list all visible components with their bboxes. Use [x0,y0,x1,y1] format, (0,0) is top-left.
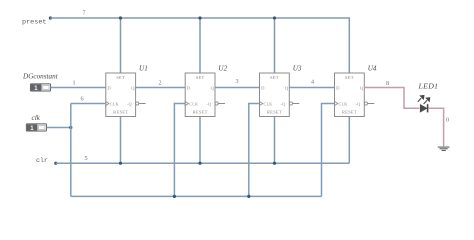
wire : preset drop to U3 SET [274,18,276,73]
ground [438,147,450,150]
junction clr/U3 [273,162,276,165]
svg-text:8: 8 [386,80,389,87]
svg-text:LED1: LED1 [418,82,439,91]
svg-text:3: 3 [235,78,238,85]
svg-text:6: 6 [80,96,83,103]
wire net 6 : riser to U3 CLK [249,104,260,197]
junction preset/U1 [119,16,122,19]
svg-text:U4: U4 [368,65,377,73]
svg-text:clk: clk [32,114,41,122]
flip-flop U4 [335,73,375,117]
svg-text:U3: U3 [293,65,302,73]
wire net 5 : clr bus [56,162,350,164]
junction clock bus / U2 [173,195,176,198]
junction clk [69,126,72,129]
svg-text:preset: preset [22,18,46,26]
svg-text:U1: U1 [139,65,148,73]
LED LED1 [418,82,439,113]
junction preset/U2 [198,16,201,19]
wire : preset drop to U1 SET [120,18,122,73]
svg-text:0: 0 [446,116,449,123]
wire net 7 : preset bus [50,18,349,73]
junction clr/U2 [198,162,201,165]
wire net 5 : U2 RESET drop [199,117,201,164]
wire net 5 : U1 RESET drop [120,117,122,164]
wire net 0 : LED1 cathode to ground [428,108,443,146]
wire net 6 : riser to U4 CLK [322,104,335,197]
junction clock bus / U3 [247,195,250,198]
wire net 6 : clk vertical riser [70,104,72,197]
wire net 5 : U4 RESET drop [348,117,350,164]
wire net 6 : riser to U2 CLK [174,104,185,197]
clock source clk [26,114,46,132]
wire net 1 : DGconstant to U1 D [51,87,106,89]
flip-flop U3 [260,73,300,117]
wire net 4 : U3 Q to U4 D [289,87,334,89]
wire net 6 : clk to junction [47,127,71,129]
svg-text:5: 5 [84,155,87,162]
flip-flop U2 [185,73,225,117]
svg-text:1: 1 [72,80,75,87]
svg-text:clr: clr [36,157,48,164]
junction preset/U3 [273,16,276,19]
svg-text:2: 2 [158,80,161,87]
junction clr/U1 [119,162,122,165]
wire net 6 : to U1 CLK [71,103,106,105]
flip-flop U1 [106,73,146,117]
wire net 6 : bottom clock bus [71,195,322,197]
svg-text:4: 4 [311,79,314,86]
wire net 8 : U4 Q to LED1 [364,88,419,109]
wire : preset drop to U2 SET [199,18,201,73]
wire net 3 : U2 Q to U3 D [215,87,260,89]
wire net 5 : U3 RESET drop [274,117,276,164]
svg-text:U2: U2 [218,65,227,73]
svg-text:7: 7 [82,10,85,17]
svg-text:DGconstant: DGconstant [22,72,59,80]
digital constant DGconstant [22,72,59,92]
wire net 2 : U1 Q to U2 D [136,87,186,89]
